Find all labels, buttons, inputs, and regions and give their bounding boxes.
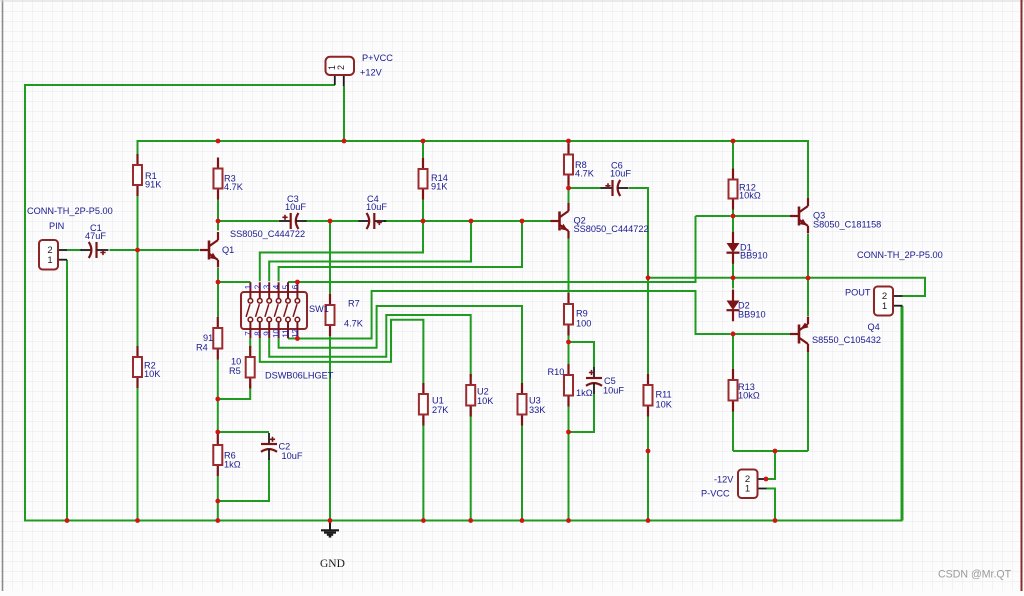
svg-text:BB910: BB910 bbox=[740, 251, 768, 261]
wire sw pin10 to U3 bbox=[279, 306, 522, 386]
svg-text:5: 5 bbox=[282, 284, 291, 289]
svg-text:7: 7 bbox=[244, 331, 253, 336]
svg-text:27K: 27K bbox=[432, 405, 449, 415]
wire C6 left bbox=[569, 187, 601, 189]
svg-text:10uF: 10uF bbox=[285, 202, 306, 212]
svg-text:10K: 10K bbox=[144, 369, 161, 379]
wire top +12V bus bbox=[138, 141, 809, 199]
svg-text:4.7K: 4.7K bbox=[344, 319, 364, 329]
capacitor C2 bbox=[261, 433, 277, 460]
connector PIN input header bbox=[39, 240, 58, 270]
wire sw pins11-12 bottom bbox=[288, 291, 731, 339]
wire sw pin1 wire bbox=[218, 281, 250, 283]
P+VCC pin2 stub bbox=[343, 75, 345, 86]
transistor Q4 bbox=[790, 317, 809, 353]
wire Q2 emitter down bbox=[568, 239, 570, 294]
P-VCC pin2 stub bbox=[758, 478, 767, 480]
wire Q1 emitter chain bbox=[218, 268, 250, 317]
wire neg rail to P-VCC pin2 bbox=[766, 451, 775, 479]
diode D2 bbox=[727, 290, 740, 322]
svg-text:3: 3 bbox=[263, 284, 272, 289]
junction Dmid bbox=[731, 275, 736, 280]
transistor Q3 bbox=[790, 198, 808, 234]
svg-text:10kΩ: 10kΩ bbox=[738, 391, 760, 401]
wire C3 to C4 via R7 node bbox=[307, 220, 359, 222]
svg-text:SW1: SW1 bbox=[309, 304, 329, 314]
wire neg rail bbox=[733, 450, 808, 452]
svg-text:R11: R11 bbox=[656, 390, 672, 400]
POUT pin2 stub bbox=[893, 295, 903, 297]
svg-text:U3: U3 bbox=[529, 396, 541, 406]
junction bus-R14 bbox=[421, 139, 426, 144]
svg-text:S8550_C105432: S8550_C105432 bbox=[812, 335, 881, 345]
resistor R4 bbox=[213, 317, 222, 360]
junction gnd-PVCC bbox=[773, 518, 778, 523]
junction R4-R5 bbox=[215, 397, 220, 402]
svg-text:10: 10 bbox=[272, 329, 281, 338]
wire R11 top bbox=[647, 278, 649, 374]
wire Q4 collector down bbox=[807, 352, 809, 451]
wire C6 right then down bbox=[629, 188, 648, 278]
svg-text:1kΩ: 1kΩ bbox=[576, 388, 593, 398]
wire Q4 base wire bbox=[733, 333, 790, 335]
wire Q3 base wire bbox=[733, 215, 790, 217]
svg-text:4: 4 bbox=[272, 284, 281, 289]
wire R1 bottom to input node bbox=[137, 195, 139, 251]
sheet border right bbox=[1021, 0, 1023, 591]
svg-text:Q1: Q1 bbox=[222, 245, 234, 255]
svg-text:R7: R7 bbox=[348, 299, 360, 309]
svg-text:C2: C2 bbox=[279, 442, 291, 452]
capacitor C5 bbox=[586, 367, 602, 394]
svg-text:9: 9 bbox=[263, 331, 272, 336]
svg-text:P-VCC: P-VCC bbox=[701, 489, 730, 499]
svg-text:10kΩ: 10kΩ bbox=[739, 191, 761, 201]
svg-text:10uF: 10uF bbox=[366, 202, 387, 212]
junction gnd-67 bbox=[65, 518, 70, 523]
svg-text:91: 91 bbox=[203, 333, 213, 343]
resistor R11 bbox=[644, 374, 653, 417]
wire C2 branch bottom bbox=[218, 460, 269, 502]
resistor R13 bbox=[729, 369, 738, 412]
junction Q1E bbox=[216, 280, 221, 285]
wire D2 bottom link bbox=[732, 332, 734, 335]
svg-text:2: 2 bbox=[336, 65, 346, 70]
sheet border left bbox=[2, 0, 4, 591]
svg-text:CSDN @Mr.QT: CSDN @Mr.QT bbox=[938, 569, 1012, 581]
junction netB-R7 bbox=[328, 219, 333, 224]
wire R11 bottom bbox=[647, 417, 649, 521]
wire U1 bottom bbox=[422, 415, 424, 521]
wire R7 bottom to GND bbox=[329, 336, 331, 521]
POUT pin1 stub bbox=[893, 305, 903, 307]
junction netB-Q1C bbox=[216, 219, 221, 224]
wire net C to C3 bbox=[218, 220, 279, 222]
wire R13 bottom bbox=[732, 412, 734, 452]
svg-text:10uF: 10uF bbox=[610, 169, 631, 179]
wire C4 to Q2 base bbox=[384, 220, 551, 222]
junction gnd-U2 bbox=[468, 518, 473, 523]
svg-text:GND: GND bbox=[320, 558, 345, 570]
wire diode mid to output rail bbox=[648, 278, 925, 296]
diode D1 bbox=[727, 232, 740, 264]
PIN pin1 stub bbox=[58, 259, 67, 261]
junction gnd-R10 bbox=[566, 518, 571, 523]
svg-text:91K: 91K bbox=[145, 180, 162, 190]
junction gnd-R6 bbox=[215, 518, 220, 523]
junction netB-R14 bbox=[421, 219, 426, 224]
svg-text:4.7K: 4.7K bbox=[575, 169, 595, 179]
resistor R2 bbox=[133, 346, 142, 388]
wire C2 branch top bbox=[218, 431, 269, 433]
svg-text:91K: 91K bbox=[431, 182, 448, 192]
wire R14 bottom to net bbox=[422, 200, 424, 222]
wire input pin1 down bbox=[66, 260, 68, 521]
svg-text:CONN-TH_2P-P5.00: CONN-TH_2P-P5.00 bbox=[27, 206, 113, 216]
wire R12 top bbox=[732, 141, 734, 169]
wire Q4 emitter up bbox=[807, 278, 809, 316]
wire R8 bottom node bbox=[568, 186, 570, 189]
junction bus-R3 bbox=[216, 139, 221, 144]
wire P-VCC pin1 to GND bus bbox=[767, 489, 776, 521]
capacitor C4 bbox=[358, 213, 386, 229]
junction R6bot bbox=[215, 499, 220, 504]
svg-text:100: 100 bbox=[576, 319, 591, 329]
resistor R12 bbox=[729, 169, 738, 210]
svg-text:4.7K: 4.7K bbox=[224, 182, 244, 192]
svg-text:P+VCC: P+VCC bbox=[362, 53, 393, 63]
junction C6-D bbox=[646, 275, 651, 280]
svg-text:R5: R5 bbox=[229, 366, 241, 376]
wire sw pin4 riser bbox=[279, 221, 522, 281]
wire R3 bottom bbox=[217, 200, 219, 222]
junction netB-p4 bbox=[520, 219, 525, 224]
P+VCC pin1 stub bbox=[334, 75, 336, 85]
junction gnd-U3 bbox=[520, 518, 525, 523]
junction input-R1 bbox=[135, 248, 140, 253]
resistor R14 bbox=[419, 158, 428, 200]
svg-text:1: 1 bbox=[244, 284, 253, 289]
svg-text:10: 10 bbox=[231, 357, 241, 367]
svg-text:8: 8 bbox=[253, 331, 262, 336]
transistor Q1 bbox=[200, 232, 218, 268]
wire D1 top link bbox=[732, 216, 734, 232]
wire Q1 collector up bbox=[217, 221, 219, 231]
resistor R10 bbox=[564, 364, 573, 407]
svg-text:CONN-TH_2P-P5.00: CONN-TH_2P-P5.00 bbox=[857, 250, 943, 260]
wire C5 branch bbox=[569, 342, 595, 432]
wire R9 bottom node bbox=[568, 335, 570, 342]
svg-text:1: 1 bbox=[882, 301, 887, 312]
junction gnd-R11 bbox=[646, 518, 651, 523]
capacitor C1 bbox=[81, 242, 109, 258]
wire U3 bottom bbox=[521, 415, 523, 521]
svg-text:1: 1 bbox=[47, 255, 52, 266]
connector P-VCC header bbox=[738, 470, 758, 499]
wire sw pins5-6 to Q3 base node bbox=[288, 216, 731, 282]
svg-text:1kΩ: 1kΩ bbox=[224, 460, 241, 470]
resistor U2 bbox=[466, 374, 475, 417]
wire Q3 emitter down bbox=[807, 234, 809, 278]
wire sw pin9 to U2 bbox=[269, 315, 471, 377]
svg-text:R9: R9 bbox=[576, 309, 588, 319]
junction bus-R12 bbox=[731, 139, 736, 144]
transistor Q2 bbox=[551, 203, 569, 239]
svg-text:DSWB06LHGET: DSWB06LHGET bbox=[265, 371, 334, 381]
svg-text:10K: 10K bbox=[656, 400, 673, 410]
svg-text:S8050_C181158: S8050_C181158 bbox=[813, 220, 881, 230]
svg-text:R10: R10 bbox=[548, 367, 565, 377]
svg-text:2: 2 bbox=[253, 284, 262, 289]
wire R2 top bbox=[137, 250, 139, 346]
junction PVCCp2 bbox=[764, 477, 769, 482]
wire R4 bottom chain bbox=[217, 360, 219, 435]
resistor R5 bbox=[246, 346, 255, 389]
resistor R1 bbox=[133, 154, 142, 196]
resistor U3 bbox=[518, 383, 527, 426]
PIN pin2 stub bbox=[58, 249, 67, 251]
wire input node to C1 bbox=[67, 249, 82, 251]
wire D1 to D2 link bbox=[732, 264, 734, 289]
svg-text:10uF: 10uF bbox=[282, 451, 303, 461]
svg-text:33K: 33K bbox=[529, 405, 546, 415]
ground bbox=[321, 521, 339, 537]
wire Q2 collector up bbox=[568, 188, 570, 203]
svg-text:1: 1 bbox=[745, 484, 750, 495]
wire sw pin3 riser bbox=[269, 221, 471, 281]
switch SW1 bbox=[241, 282, 307, 338]
resistor R8 bbox=[564, 144, 573, 186]
svg-text:6: 6 bbox=[291, 284, 300, 289]
wire R14 top bbox=[422, 141, 424, 158]
connector POUT header bbox=[874, 287, 893, 316]
junction p6 bbox=[295, 280, 300, 285]
junction R8-C6 bbox=[566, 186, 571, 191]
wire POUT pin1 down-left bbox=[902, 306, 904, 521]
svg-text:POUT: POUT bbox=[845, 288, 871, 298]
wire R10 chain bbox=[568, 342, 570, 521]
wire U2 bottom bbox=[470, 406, 472, 521]
wire R13 top bbox=[732, 334, 734, 369]
wire R6 bottom chain bbox=[217, 476, 219, 521]
junction gnd-U1 bbox=[421, 518, 426, 523]
wire GND rail top-left loop bbox=[25, 85, 902, 521]
svg-text:U2: U2 bbox=[477, 387, 489, 397]
wire P+VCC pin2 to top bus bbox=[343, 86, 345, 141]
svg-text:Q4: Q4 bbox=[868, 322, 880, 332]
wire R5 bottom to R4 line bbox=[218, 384, 250, 399]
capacitor C3 bbox=[279, 213, 307, 229]
svg-text:SS8050_C444722: SS8050_C444722 bbox=[230, 229, 305, 239]
svg-text:-12V: -12V bbox=[714, 475, 734, 485]
connector P+VCC header bbox=[326, 57, 355, 75]
svg-text:PIN: PIN bbox=[49, 221, 64, 231]
wire R12 bottom node bbox=[732, 210, 734, 217]
wire R7 top bbox=[329, 221, 331, 294]
svg-text:+12V: +12V bbox=[360, 68, 383, 78]
svg-text:10K: 10K bbox=[477, 396, 494, 406]
resistor R9 bbox=[564, 293, 573, 336]
svg-text:U1: U1 bbox=[432, 396, 444, 406]
wire R8 top bbox=[568, 141, 570, 144]
junction R11mid bbox=[646, 449, 651, 454]
wire C1 to Q1 base bbox=[110, 249, 200, 251]
junction gnd-sym bbox=[328, 518, 333, 523]
junction out bbox=[806, 276, 811, 281]
junction gnd-R2 bbox=[135, 518, 140, 523]
junction Q4base bbox=[731, 332, 736, 337]
junction bus-R8 bbox=[566, 139, 571, 144]
junction R10b bbox=[566, 430, 571, 435]
svg-text:10uF: 10uF bbox=[603, 386, 624, 396]
resistor R7 bbox=[326, 294, 335, 336]
svg-text:11: 11 bbox=[282, 329, 291, 338]
svg-text:C5: C5 bbox=[604, 376, 616, 386]
svg-text:47uF: 47uF bbox=[85, 231, 106, 241]
capacitor C6 bbox=[601, 180, 629, 196]
resistor U1 bbox=[419, 383, 428, 426]
resistor R6 bbox=[213, 434, 222, 476]
junction p12 bbox=[295, 336, 300, 341]
junction R9b bbox=[566, 340, 571, 345]
wire sw pin2 riser bbox=[260, 221, 423, 281]
junction netB-p3 bbox=[469, 219, 474, 224]
svg-text:SS8050_C444722: SS8050_C444722 bbox=[574, 224, 649, 234]
P-VCC pin1 stub bbox=[758, 488, 767, 490]
sheet border top bbox=[0, 0, 1024, 2]
resistor R3 bbox=[214, 158, 223, 200]
svg-text:BB910: BB910 bbox=[738, 309, 766, 319]
junction negrail bbox=[773, 449, 778, 454]
svg-text:R4: R4 bbox=[196, 343, 208, 353]
wire sw pin8 to U1 bbox=[260, 320, 424, 386]
wire R5 link green bbox=[249, 338, 251, 348]
wire R2 bottom bbox=[137, 378, 139, 521]
junction Q3base bbox=[731, 214, 736, 219]
junction R6top bbox=[215, 430, 220, 435]
junction bus-PVCC bbox=[342, 139, 347, 144]
